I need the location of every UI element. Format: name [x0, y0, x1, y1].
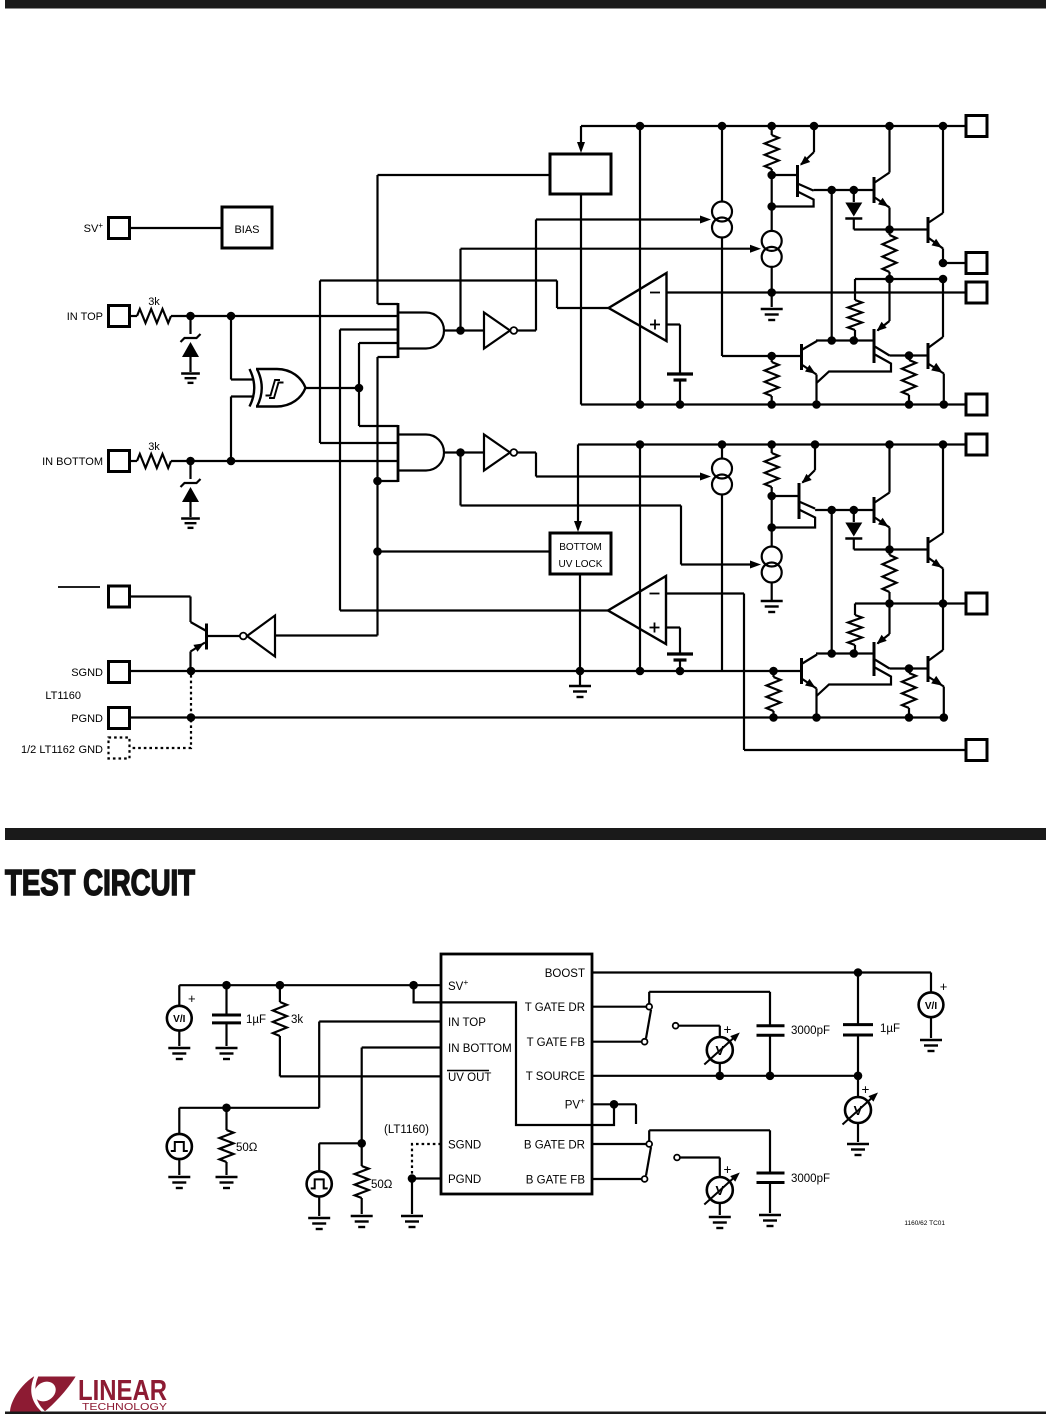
node lower rail dot — [718, 440, 727, 449]
capacitor C3 3000pF — [757, 1025, 831, 1076]
transistor Q5 bar — [873, 329, 876, 363]
meter V1 — [704, 1022, 740, 1065]
wire V1 to T SOURCE — [719, 1063, 721, 1076]
svg-text:3000pF: 3000pF — [791, 1173, 830, 1185]
svg-text:TECHNOLOGY: TECHNOLOGY — [82, 1401, 167, 1413]
IC pin label B GATE DR — [524, 1140, 585, 1152]
resistor R4 — [765, 356, 779, 405]
battery B1 — [667, 374, 693, 380]
divider bar — [5, 828, 1046, 840]
ground (BUVL) — [569, 686, 591, 697]
switch SW2 arm — [646, 1147, 651, 1176]
resistor R6 — [765, 445, 779, 497]
transistor Q3 bar — [927, 217, 930, 243]
resistor R11 3k — [273, 985, 303, 1036]
ground (V3) — [709, 1217, 731, 1228]
wire battery2 to SGND — [679, 660, 681, 671]
wire 3k to UV OUT — [280, 1036, 441, 1076]
capacitor C1 1uF — [212, 985, 266, 1046]
wire arrow into top box — [577, 126, 585, 153]
IC pin label B GATE FB — [526, 1175, 586, 1187]
transistor Q7 bar — [798, 483, 801, 519]
wire pulse2 rail — [319, 1143, 362, 1171]
node PGND dot — [408, 1174, 417, 1183]
svg-text:T GATE DR: T GATE DR — [525, 1002, 585, 1014]
ground (PGND) — [401, 1216, 423, 1227]
node BOOST dot — [854, 968, 863, 977]
wire comb vertical x340 (opamp2 output) — [339, 330, 341, 611]
node lower rail dot — [885, 440, 894, 449]
node IN BOTTOM junction — [186, 457, 195, 466]
node y279 dot x943 — [939, 275, 948, 284]
wire XOR input 1 — [231, 316, 253, 380]
svg-text:3k: 3k — [148, 441, 160, 453]
comb bar (AND1 inputs) — [397, 303, 400, 358]
svg-text:+: + — [940, 979, 948, 994]
svg-text:B GATE FB: B GATE FB — [526, 1175, 586, 1187]
wire CS1 top — [721, 126, 723, 202]
node collector return dot — [767, 202, 776, 211]
switch SW1 contact a — [646, 1004, 652, 1010]
svg-text:V/I: V/I — [173, 1014, 185, 1025]
wire PV+ stub — [614, 1104, 636, 1124]
node top rail dot — [810, 122, 819, 131]
wire IN BOTTOM line — [171, 460, 397, 462]
wire Q11 emitter — [928, 676, 944, 718]
wire UVOUT to Q13 — [130, 597, 191, 623]
meter V2 — [843, 1076, 879, 1142]
ground (PG1) — [168, 1177, 190, 1188]
source pulse generator PG1 — [167, 1108, 192, 1175]
node T SOURCE dot — [716, 1072, 725, 1081]
node base line dot 1 — [827, 186, 836, 195]
node SV+ rail dot — [276, 981, 285, 990]
ground (zener D2) — [181, 519, 200, 528]
current source I2 — [762, 231, 782, 267]
resistor R1 — [765, 126, 779, 175]
logo LINEAR text — [78, 1375, 167, 1407]
node PGND dot — [769, 713, 778, 722]
wire Q7 emitter to rail — [802, 445, 816, 484]
node top rail dot — [939, 122, 948, 131]
wire Q10 collector upper — [874, 659, 928, 669]
ground (CS2) — [761, 309, 783, 320]
wire Q9 collector — [928, 445, 943, 544]
IC pin label T SOURCE — [526, 1071, 586, 1083]
IC pin label PGND — [448, 1174, 481, 1186]
battery B2 — [667, 654, 693, 660]
switch SW2 contact b — [642, 1176, 648, 1182]
wire pulse1 rail — [179, 1107, 319, 1109]
wire Q3 collector — [928, 126, 943, 223]
inverter U7 — [240, 616, 275, 657]
wire Q2 emitter — [874, 197, 890, 230]
IC pin label UV OUT — [447, 1071, 491, 1085]
wire SW2 to cap — [649, 1130, 770, 1173]
svg-text:GND: GND — [79, 744, 104, 756]
wire opamp2 minus to B GATE FB — [666, 594, 966, 751]
wire AND2 output — [444, 451, 484, 453]
node battery2 dot — [676, 667, 685, 676]
label (LT1160) — [384, 1124, 429, 1136]
wire Q1 collector lower — [772, 192, 814, 207]
IC pin label SGND — [448, 1140, 481, 1152]
IC pin label BOOST — [545, 968, 585, 980]
switch SW2 pole — [674, 1155, 680, 1161]
transistor Q12 bar — [800, 658, 803, 684]
svg-text:IN BOTTOM: IN BOTTOM — [42, 456, 103, 468]
node SGND dot x773 — [769, 667, 778, 676]
svg-text:1160/62 TC01: 1160/62 TC01 — [904, 1220, 945, 1227]
wire y603 line to pin — [855, 602, 966, 604]
zener D1 (IN TOP clamp) — [181, 316, 201, 372]
wire SV+ to BIAS — [130, 227, 223, 229]
wire top box bottom to rail — [580, 194, 582, 405]
IC pin label SV+ — [448, 977, 468, 993]
block BIAS U1 — [222, 207, 272, 248]
wire CS4 to ground — [771, 583, 773, 601]
node R7 bottom dot — [885, 599, 894, 608]
pin T GATE FB (right) — [966, 282, 987, 303]
wire bias vertical x831 lower — [831, 510, 833, 654]
IC pin label PV+ — [565, 1096, 585, 1112]
node top rail dot — [636, 122, 645, 131]
capacitor C2 1uF — [843, 973, 900, 1076]
wire pole2 to V3 — [680, 1158, 720, 1178]
svg-text:V/I: V/I — [925, 1001, 937, 1012]
label LT1160 — [45, 690, 81, 702]
svg-text:SGND: SGND — [71, 667, 103, 679]
xor gate U2 (hysteresis) — [250, 369, 306, 407]
svg-text:+: + — [862, 1082, 870, 1097]
wire Q12 collector — [802, 655, 818, 665]
wire supply vertical x640 — [639, 126, 641, 405]
bottom border line — [5, 1412, 1046, 1415]
node base3 dot 1 — [827, 649, 836, 658]
svg-text:IN TOP: IN TOP — [448, 1017, 486, 1029]
switch SW1 contact b — [642, 1039, 648, 1045]
svg-text:B GATE DR: B GATE DR — [524, 1140, 585, 1152]
node SV+ rail dot — [222, 981, 231, 990]
node top rail dot — [767, 122, 776, 131]
wire battery to rail — [679, 380, 681, 405]
wire comb1 step bottom — [378, 356, 399, 358]
wire arrow into BOTTOM UV LOCK — [574, 445, 582, 533]
wire y279 line — [855, 278, 943, 280]
svg-text:3k: 3k — [148, 296, 160, 308]
wire Q4 base — [772, 355, 802, 357]
wire Q5 collector upper — [874, 346, 928, 356]
svg-text:TEST CIRCUIT: TEST CIRCUIT — [5, 862, 195, 903]
wire supply vertical x640 lower — [639, 445, 641, 672]
wire comb2 input y443 — [320, 442, 398, 444]
wire Q4 collector — [802, 341, 818, 350]
IC pin label T GATE DR — [525, 1002, 585, 1014]
node SGND dot x191 — [187, 667, 196, 676]
wire BOOST line — [592, 971, 931, 973]
ground (PG2) — [308, 1218, 330, 1229]
wire Q1 base — [772, 174, 798, 176]
wire top box left — [378, 174, 551, 176]
capacitor C4 3000pF — [757, 1173, 831, 1213]
wire IN BOTTOM lead — [362, 1048, 441, 1144]
resistor R7 — [883, 550, 897, 604]
wire Q7 base — [772, 495, 799, 497]
wire Q6 collector — [928, 279, 943, 348]
wire CS2 to ground — [771, 267, 773, 307]
wire XOR input 2 — [231, 397, 253, 462]
svg-text:50Ω: 50Ω — [236, 1142, 258, 1154]
node CS2-minus junction — [767, 288, 776, 297]
transistor Q11 bar — [927, 656, 930, 682]
node lower rail dot — [767, 440, 776, 449]
pin B GATE FB (right) — [966, 740, 987, 761]
svg-text:1/2 LT1162: 1/2 LT1162 — [21, 744, 75, 756]
wire IN TOP line — [171, 315, 397, 317]
pin GND dashed (1/2 LT1162) — [21, 738, 130, 759]
node AND2 output dot — [456, 448, 465, 457]
wire Q3 emitter — [928, 238, 943, 264]
wire feedback vertical x320 — [319, 281, 321, 444]
svg-text:PGND: PGND — [448, 1174, 481, 1186]
node T SOURCE rail dot — [905, 400, 914, 409]
wire comb1 input y329 — [340, 328, 398, 330]
wire Q12 emitter — [802, 679, 817, 718]
resistor R5 — [902, 356, 916, 405]
wire Q5 emitter from R2 node — [877, 279, 890, 331]
wire B GATE DR lead — [592, 1143, 646, 1145]
wire SGND line — [130, 670, 802, 672]
svg-text:1µF: 1µF — [880, 1023, 900, 1035]
wire x772 chain lower — [771, 496, 773, 547]
svg-text:1µF: 1µF — [246, 1014, 266, 1026]
resistor R8 — [848, 604, 862, 654]
wire PGND line — [130, 716, 944, 718]
and gate U3 — [398, 313, 444, 349]
svg-text:(LT1160): (LT1160) — [384, 1124, 429, 1136]
node R6 bottom dot — [767, 492, 776, 501]
svg-text:BOOST: BOOST — [545, 968, 585, 980]
svg-text:3k: 3k — [291, 1014, 303, 1026]
wire AND1 output — [444, 329, 484, 331]
node lower rail dot — [636, 440, 645, 449]
wire Q9 emitter — [928, 558, 943, 604]
wire opamp1 plus — [667, 325, 681, 375]
label 1160/62 TC01 — [904, 1220, 945, 1227]
transistor Q13 bar — [205, 624, 208, 650]
node 50ohm2 dot — [357, 1139, 366, 1148]
wire AND2 out to CS2b arrow — [461, 453, 762, 569]
node base line dot 4 — [850, 506, 859, 515]
node T SOURCE rail dot — [676, 400, 685, 409]
resistor R2 — [883, 230, 897, 280]
node PGND dot — [905, 713, 914, 722]
label UV OUT overline — [58, 586, 100, 588]
diode D4 — [845, 510, 928, 550]
node collector return dot 2 — [767, 523, 776, 532]
pin B GATE DR (right) — [966, 593, 987, 614]
resistor R9 — [902, 669, 916, 718]
current source I1 — [712, 202, 732, 238]
zener D2 (IN BOTTOM clamp) — [181, 461, 201, 517]
pin T SOURCE (right) — [966, 394, 987, 415]
IC pin label IN BOTTOM — [448, 1043, 512, 1055]
wire opamp2 plus — [666, 628, 680, 655]
node Q8 emitter dot — [885, 545, 894, 554]
wire SGND dashed — [412, 1144, 441, 1179]
pin UV OUT — [109, 586, 130, 607]
node AND1 output dot — [456, 326, 465, 335]
ground (V/I 2) — [920, 1040, 942, 1051]
node top rail dot — [718, 122, 727, 131]
ground (zener D1) — [181, 374, 200, 383]
inverter U4 — [484, 313, 517, 349]
node IN BOTTOM junction 2 — [227, 457, 236, 466]
wire BOTTOM UV LOCK left — [378, 550, 551, 552]
wire XOR output — [305, 387, 359, 389]
wire bias vertical x831 — [831, 190, 833, 341]
node bottom-uv dot — [373, 547, 382, 556]
wire lower rail (PV+) — [578, 443, 966, 445]
node T SOURCE rail dot — [940, 400, 949, 409]
wire SV+ to PV+ routing — [414, 985, 614, 1125]
wire Q8 emitter — [874, 517, 890, 550]
comb bar (AND2 inputs) — [397, 425, 400, 482]
wire Q10 collector lower — [817, 667, 892, 696]
node Q2 emitter dot — [885, 225, 894, 234]
node R1 bottom dot — [767, 171, 776, 180]
transistor Q2 bar — [873, 177, 876, 203]
wire Q1 collector upper — [798, 184, 875, 191]
wire U7 input — [275, 634, 378, 636]
wire Q13 emitter — [191, 643, 206, 672]
IC box LT1160 — [441, 954, 592, 1194]
svg-text:IN TOP: IN TOP — [67, 311, 103, 323]
ground (R13) — [351, 1216, 373, 1227]
wire SV+ rail — [179, 984, 441, 986]
switch SW1 arm — [646, 1010, 651, 1039]
wire Q6 emitter — [928, 363, 944, 405]
node Q6 base dot — [905, 351, 914, 360]
source V/I 1 — [167, 985, 196, 1046]
wire Q10 emitter — [877, 604, 890, 645]
node PGND dot — [940, 713, 949, 722]
pin IN BOTTOM — [42, 451, 129, 472]
node T SOURCE dot — [766, 1072, 775, 1081]
block TOP UV LOCK — [550, 154, 611, 194]
wire B GATE FB lead — [592, 1178, 642, 1180]
svg-text:T SOURCE: T SOURCE — [526, 1071, 586, 1083]
wire Q13 collector — [191, 622, 206, 631]
wire base line 2 — [816, 339, 874, 341]
node base line dot 2 — [850, 186, 859, 195]
switch SW2 contact a — [646, 1141, 652, 1147]
node comb2 dot — [373, 477, 382, 486]
node base2 dot 1 — [827, 336, 836, 345]
ground (R12) — [216, 1177, 238, 1188]
wire comb1 input y343 — [359, 342, 398, 344]
IC pin label T GATE FB — [527, 1037, 586, 1049]
resistor R3 — [848, 279, 862, 341]
IC pin label IN TOP — [448, 1017, 486, 1029]
svg-text:T GATE FB: T GATE FB — [527, 1037, 586, 1049]
meter V3 — [704, 1162, 740, 1205]
node Q11 base dot — [905, 664, 914, 673]
node T GATE DR dot — [939, 259, 948, 268]
wire Q4 emitter — [802, 365, 817, 405]
wire Q5 collector lower — [817, 354, 892, 383]
svg-text:UV OUT: UV OUT — [448, 1072, 491, 1084]
transistor Q4 bar — [800, 344, 803, 370]
node pulse1 rail dot — [222, 1104, 231, 1113]
resistor 3k (IN BOTTOM) — [130, 441, 172, 468]
wire T GATE FB lead — [592, 1041, 642, 1043]
svg-text:BOTTOM: BOTTOM — [559, 542, 602, 553]
svg-text:3000pF: 3000pF — [791, 1025, 830, 1037]
wire Q11 collector — [928, 604, 943, 662]
node R2 bottom dot — [885, 275, 894, 284]
pin BOOST (right) — [966, 116, 987, 137]
wire vertical x359 — [358, 343, 360, 426]
wire U7 out to Q13 base — [208, 635, 240, 637]
opamp A2 — [608, 576, 666, 644]
wire INV2 out to CS1b arrow — [517, 453, 711, 481]
ground (C4) — [759, 1215, 781, 1226]
node T SOURCE rail dot — [812, 400, 821, 409]
current source I3 — [712, 445, 732, 672]
wire IN TOP lead — [319, 1022, 441, 1108]
logo TECHNOLOGY text — [82, 1401, 167, 1413]
wire CS1 bottom to Qb base — [722, 238, 772, 357]
pin T GATE DR (right) — [966, 253, 987, 274]
svg-text:+: + — [188, 991, 196, 1006]
wire PGND to ground — [411, 1179, 413, 1215]
opamp A1 — [609, 273, 667, 341]
transistor Q6 bar — [927, 343, 930, 369]
node x640 SGND dot — [636, 667, 645, 676]
transistor Q1 base bar — [796, 165, 799, 197]
ground (CS4) — [761, 601, 783, 612]
pin PV+ (right) — [966, 434, 987, 455]
wire UV vertical x377 lower — [376, 357, 378, 636]
wire base line lower2 — [816, 652, 874, 654]
wire Q2 collector — [874, 126, 890, 183]
node base2 dot 2 — [850, 336, 859, 345]
wire V3 to ground — [719, 1203, 721, 1215]
wire x772 chain — [771, 175, 773, 231]
wire T GATE DR lead — [592, 1006, 646, 1008]
wire T SOURCE rail — [581, 403, 966, 405]
wire opamp1 output feedback — [320, 281, 609, 309]
node top rail dot — [885, 122, 894, 131]
node T SOURCE rail dot — [767, 400, 776, 409]
svg-text:UV LOCK: UV LOCK — [559, 559, 603, 570]
wire top rail (BOOST) — [581, 125, 966, 127]
node IN TOP junction 2 — [227, 312, 236, 321]
wire to pin T GATE DR — [943, 262, 966, 264]
wire UV vertical x377 upper — [376, 175, 378, 304]
ground (C1) — [216, 1048, 238, 1059]
resistor 3k (IN TOP) — [130, 296, 172, 323]
title TEST CIRCUIT — [5, 862, 195, 903]
source pulse generator PG2 — [307, 1171, 332, 1216]
node XOR output dot — [355, 384, 364, 393]
wire opamp1 minus input — [667, 291, 967, 293]
wire dashed SGND-PGND tie — [131, 675, 191, 748]
wire PV+ pin — [592, 1103, 614, 1105]
pin IN TOP — [67, 306, 130, 327]
transistor Q8 bar — [873, 497, 876, 523]
